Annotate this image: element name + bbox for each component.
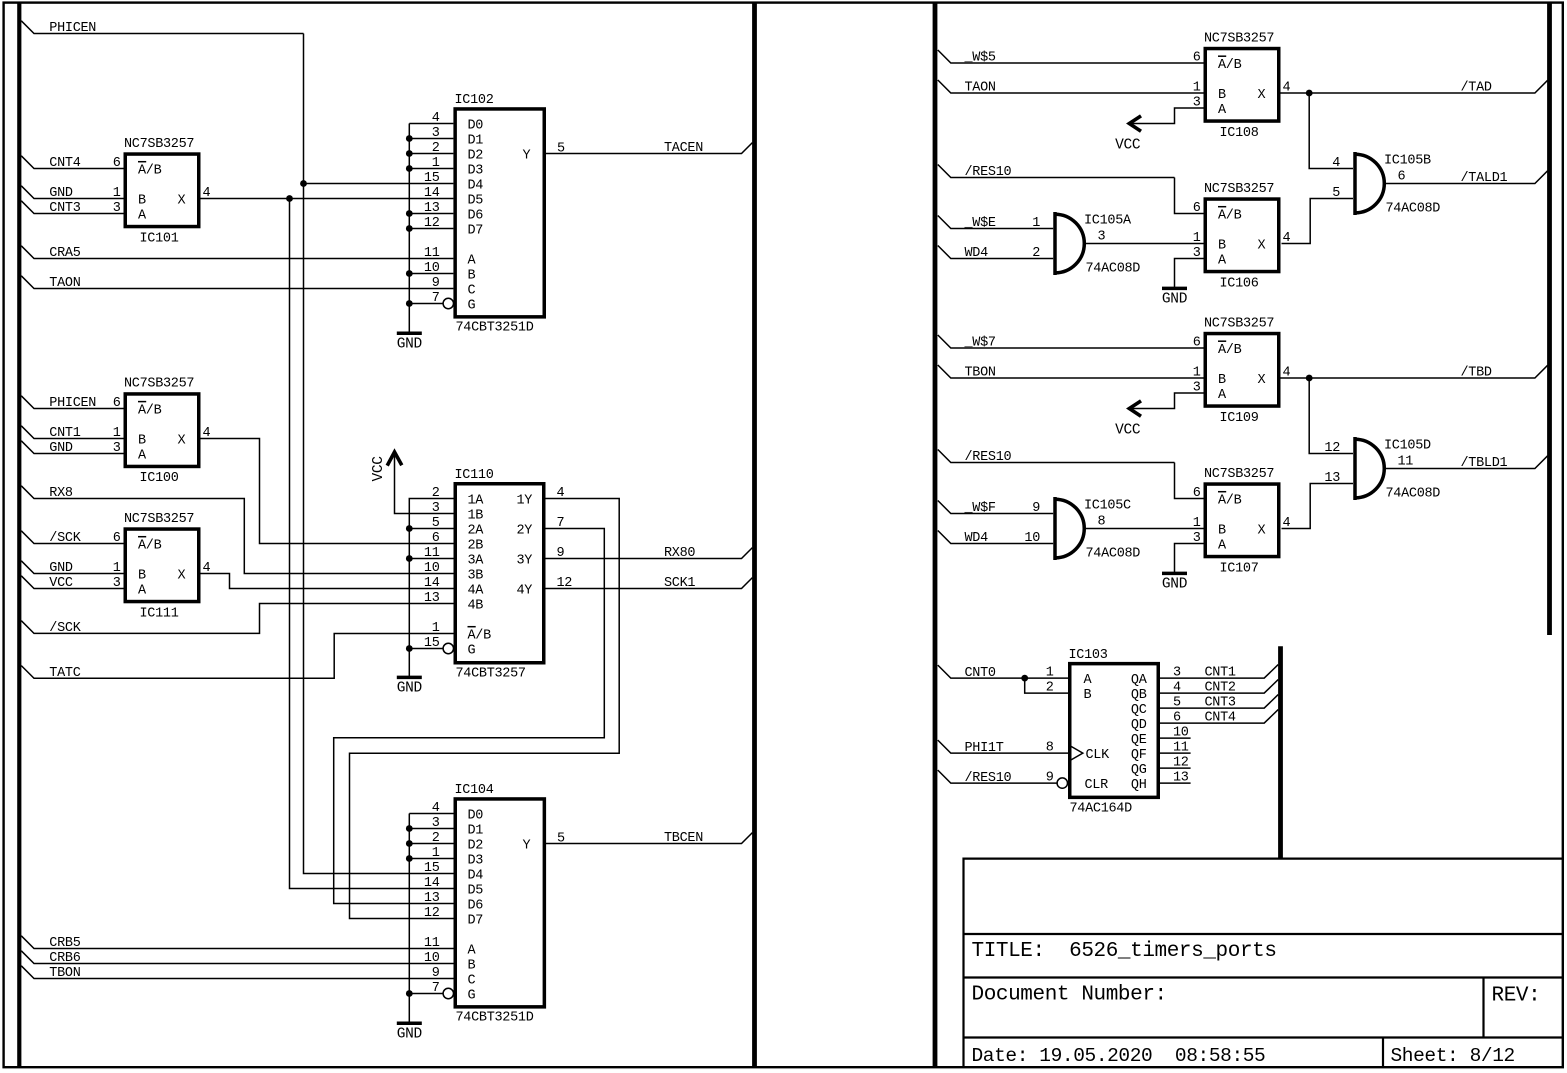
wire IC102 pin D6 — [409, 213, 453, 215]
svg-text:6: 6 — [432, 531, 440, 546]
wire net /SCK from left bus — [21, 531, 123, 544]
svg-text:D6: D6 — [468, 208, 484, 223]
IC103 clock input triangle — [1070, 746, 1083, 761]
svg-text:15: 15 — [424, 861, 440, 876]
svg-text:A: A — [138, 448, 147, 463]
stub IC103 pin 13 QH — [1160, 782, 1191, 784]
junction node PHICEN to IC102 D4 — [300, 180, 307, 187]
svg-text:X: X — [1258, 88, 1266, 103]
svg-text:1A: 1A — [468, 493, 485, 508]
svg-text:A: A — [1084, 673, 1093, 688]
wire net /RES10 from middle bus 2 — [938, 165, 1175, 178]
svg-text:/TAD: /TAD — [1461, 81, 1492, 96]
svg-text:A: A — [1218, 388, 1227, 403]
wire net CRB5 from left bus — [21, 936, 453, 949]
junction dot — [406, 270, 413, 277]
svg-text:D7: D7 — [468, 223, 484, 238]
svg-text:2B: 2B — [468, 538, 484, 553]
svg-text:74AC08D: 74AC08D — [1386, 487, 1441, 502]
svg-text:IC101: IC101 — [140, 231, 179, 246]
svg-text:IC108: IC108 — [1220, 126, 1259, 141]
wire net /TBLD1 from IC105D output to right bus — [1384, 456, 1547, 469]
svg-text:Y: Y — [523, 838, 531, 853]
middle signal bus 1 — [752, 3, 757, 1066]
wire net CNT3 from left bus — [21, 201, 123, 214]
svg-text:RX80: RX80 — [664, 546, 695, 561]
wire IC102 pin D2 — [409, 153, 453, 155]
svg-text:3A: 3A — [468, 553, 485, 568]
svg-text:3B: 3B — [468, 568, 484, 583]
wire IC111 output X to IC110 4A — [201, 574, 454, 589]
svg-text:IC109: IC109 — [1220, 411, 1259, 426]
svg-text:CNT3: CNT3 — [1205, 696, 1236, 711]
wire net CNT1 from left bus — [21, 426, 123, 439]
wire net TACEN from IC102 Y to middle bus 1 — [546, 143, 752, 154]
svg-text:4A: 4A — [468, 583, 485, 598]
svg-text:/TBD: /TBD — [1461, 366, 1492, 381]
svg-text:NC7SB3257: NC7SB3257 — [1204, 182, 1274, 197]
svg-text:VCC: VCC — [371, 456, 387, 482]
wire IC107 pin 3 to ground — [1175, 544, 1204, 574]
IC IC108 NC7SB3257 analog switch — [1193, 31, 1291, 141]
svg-text:74CBT3251D: 74CBT3251D — [456, 1011, 534, 1026]
svg-text:8: 8 — [1098, 515, 1106, 530]
svg-text:14: 14 — [424, 876, 440, 891]
svg-text:1: 1 — [432, 621, 440, 636]
IC IC103 74AC164D shift register — [1046, 648, 1189, 817]
svg-text:D4: D4 — [468, 178, 484, 193]
svg-text:Document Number:: Document Number: — [972, 984, 1167, 1007]
svg-text:TBON: TBON — [49, 966, 80, 981]
wire net TBON from middle bus 2 — [938, 365, 1204, 378]
svg-text:G: G — [468, 643, 476, 658]
wire IC102 pin B — [409, 273, 453, 275]
svg-text:IC107: IC107 — [1220, 561, 1259, 576]
wire IC102 pin D0 — [409, 123, 453, 125]
svg-text:X: X — [1258, 238, 1266, 253]
junction node /TBD — [1306, 375, 1313, 382]
svg-text:QD: QD — [1131, 718, 1147, 733]
wire VCC to IC109 pin 3 — [1131, 393, 1204, 409]
wire net PHICEN from left bus — [21, 21, 303, 34]
svg-text:15: 15 — [424, 171, 440, 186]
junction dot — [406, 840, 413, 847]
svg-text:A: A — [1218, 253, 1227, 268]
wire IC110 2Y to IC104 D6 — [334, 529, 605, 904]
svg-text:WD4: WD4 — [965, 246, 989, 261]
wire net CNT0 from middle bus 2 — [938, 665, 1068, 678]
svg-text:B: B — [1218, 238, 1226, 253]
wire net VCC from left bus — [21, 576, 123, 589]
svg-text:Y: Y — [523, 148, 531, 163]
wire net RX80 from IC110 3Y to middle bus 1 — [546, 548, 753, 559]
svg-text:A/B: A/B — [468, 628, 492, 643]
svg-text:B: B — [1218, 373, 1226, 388]
svg-text:14: 14 — [424, 576, 440, 591]
junction dot — [406, 150, 413, 157]
svg-text:IC104: IC104 — [455, 783, 494, 798]
stub IC103 pin 12 QG — [1160, 767, 1191, 769]
svg-text:C: C — [468, 283, 476, 298]
junction dot — [406, 165, 413, 172]
IC IC107 NC7SB3257 analog switch — [1193, 467, 1291, 577]
svg-text:D5: D5 — [468, 883, 484, 898]
junction dot — [406, 990, 413, 997]
power symbol VCC (arrow left) — [1115, 116, 1141, 154]
svg-text:PHICEN: PHICEN — [49, 396, 96, 411]
svg-text:_W$7: _W$7 — [964, 336, 996, 351]
middle signal bus 2 — [933, 3, 938, 1066]
wire IC100 output X to IC110 2B — [201, 439, 454, 544]
svg-text:D2: D2 — [468, 838, 484, 853]
svg-text:CLK: CLK — [1086, 748, 1111, 763]
svg-text:D0: D0 — [468, 118, 484, 133]
svg-text:A/B: A/B — [138, 163, 162, 178]
junction dot — [406, 825, 413, 832]
wire IC104 pin D2 — [409, 843, 453, 845]
svg-text:74AC164D: 74AC164D — [1070, 802, 1133, 817]
wire IC102 pin D7 — [409, 228, 453, 230]
wire net _W$7 from middle bus 2 — [938, 335, 1204, 348]
svg-text:SCK1: SCK1 — [664, 576, 695, 591]
svg-text:D5: D5 — [468, 193, 484, 208]
svg-text:D1: D1 — [468, 133, 484, 148]
svg-text:/SCK: /SCK — [49, 621, 81, 636]
stub IC103 pin 10 QE — [1160, 737, 1191, 739]
wire IC110 ground pin-line — [409, 499, 453, 678]
wire /RES10 corner to IC106 pin 6 — [1175, 178, 1204, 214]
wire vertical IC101.X down to IC104 D5 — [290, 199, 454, 889]
svg-text:X: X — [178, 568, 186, 583]
svg-text:A/B: A/B — [138, 403, 162, 418]
svg-text:10: 10 — [424, 561, 440, 576]
svg-text:REV:: REV: — [1492, 985, 1541, 1008]
wire IC106 pin 3 to ground — [1175, 259, 1204, 289]
wire net CNT4 from IC103 QD to CNT bus — [1160, 710, 1278, 724]
wire /RES10 corner to IC107 pin 6 — [1175, 463, 1204, 499]
svg-text:NC7SB3257: NC7SB3257 — [1204, 316, 1274, 331]
wire PHICEN branch to IC102 D4 — [304, 183, 454, 185]
ground symbol GND — [1162, 573, 1187, 592]
wire net CNT4 from left bus — [21, 156, 123, 169]
svg-text:NC7SB3257: NC7SB3257 — [1204, 31, 1274, 46]
svg-text:X: X — [178, 193, 186, 208]
ground symbol GND — [1162, 288, 1187, 307]
right signal bus — [1547, 3, 1552, 635]
svg-text:1Y: 1Y — [517, 493, 533, 508]
svg-text:QG: QG — [1131, 763, 1147, 778]
svg-text:A: A — [138, 208, 147, 223]
svg-text:GND: GND — [1162, 577, 1187, 593]
svg-text:PHICEN: PHICEN — [49, 21, 96, 36]
svg-text:CNT3: CNT3 — [49, 201, 80, 216]
svg-text:TBON: TBON — [965, 366, 996, 381]
svg-text:TATC: TATC — [49, 666, 80, 681]
svg-text:WD4: WD4 — [965, 531, 989, 546]
svg-text:B: B — [1218, 523, 1226, 538]
svg-text:4B: 4B — [468, 598, 484, 613]
wire IC107 output to IC105D pin 13 — [1282, 484, 1354, 529]
wire net GND from left bus — [21, 441, 123, 454]
svg-text:GND: GND — [397, 336, 422, 352]
svg-text:GND: GND — [397, 681, 422, 697]
wire IC101 output X to IC102 D5 and down — [201, 198, 454, 200]
wire net CNT3 from IC103 QC to CNT bus — [1160, 695, 1278, 709]
svg-text:B: B — [468, 958, 476, 973]
svg-text:74AC08D: 74AC08D — [1086, 547, 1141, 562]
CNT signal bus — [1278, 646, 1283, 858]
wire IC110 1Y to IC104 D7 — [350, 499, 620, 919]
IC IC100 NC7SB3257 analog switch — [113, 377, 211, 487]
svg-text:A: A — [138, 583, 147, 598]
svg-text:QB: QB — [1131, 688, 1147, 703]
svg-text:GND: GND — [49, 441, 73, 456]
wire net WD4 from middle bus 2 — [938, 246, 1053, 259]
left signal bus — [17, 3, 21, 1066]
svg-text:D7: D7 — [468, 913, 484, 928]
IC IC104 74CBT3251D multiplexer — [424, 783, 565, 1025]
svg-text:_W$F: _W$F — [964, 501, 996, 516]
svg-text:1: 1 — [1193, 516, 1201, 531]
wire IC102 pin D3 — [409, 168, 453, 170]
svg-text:CNT1: CNT1 — [1205, 666, 1236, 681]
svg-text:12: 12 — [1324, 441, 1340, 456]
wire net CNT1 from IC103 QA to CNT bus — [1160, 665, 1278, 679]
wire net TBON from left bus — [21, 966, 453, 979]
svg-text:13: 13 — [424, 591, 440, 606]
svg-text:B: B — [138, 568, 146, 583]
junction dot — [406, 210, 413, 217]
power symbol VCC (arrow left) — [1115, 401, 1141, 439]
svg-text:Date: 19.05.2020 08:58:55: Date: 19.05.2020 08:58:55 — [972, 1045, 1266, 1067]
wire IC106 output to IC105B pin 5 — [1282, 199, 1354, 244]
svg-text:6: 6 — [1193, 201, 1201, 216]
svg-text:NC7SB3257: NC7SB3257 — [124, 377, 194, 392]
IC IC111 NC7SB3257 analog switch — [113, 512, 211, 622]
wire net /SCK from left bus to IC110 4B — [21, 604, 453, 634]
svg-text:3: 3 — [1098, 230, 1106, 245]
svg-text:X: X — [178, 433, 186, 448]
svg-text:C: C — [468, 973, 476, 988]
IC IC101 NC7SB3257 analog switch — [113, 137, 211, 247]
wire PHICEN vertical down to IC104 D4 — [304, 34, 454, 874]
svg-text:NC7SB3257: NC7SB3257 — [124, 512, 194, 527]
wire IC104 pin D1 — [409, 828, 453, 830]
wire IC104 pin G with bubble — [409, 993, 443, 995]
junction node CNT0 — [1021, 675, 1028, 682]
svg-text:IC105A: IC105A — [1084, 214, 1132, 229]
gate IC105C 74AC08D AND — [1024, 497, 1140, 562]
wire IC104 ground pin-line — [408, 814, 410, 1024]
svg-text:74CBT3257: 74CBT3257 — [456, 667, 526, 682]
svg-text:GND: GND — [397, 1026, 422, 1042]
junction dot — [406, 645, 413, 652]
svg-text:IC103: IC103 — [1069, 648, 1108, 663]
ground symbol GND — [397, 333, 422, 352]
wire IC105C output to IC107 pin 1 — [1084, 528, 1203, 530]
wire IC102 ground pin-line — [408, 124, 410, 334]
svg-text:PHI1T: PHI1T — [965, 741, 1004, 756]
svg-text:_W$5: _W$5 — [964, 51, 996, 66]
IC IC109 NC7SB3257 analog switch — [1193, 316, 1291, 426]
junction dot — [406, 855, 413, 862]
svg-text:CRB5: CRB5 — [49, 936, 80, 951]
svg-text:D6: D6 — [468, 898, 484, 913]
svg-text:B: B — [138, 433, 146, 448]
svg-text:/RES10: /RES10 — [965, 165, 1012, 180]
svg-text:13: 13 — [424, 891, 440, 906]
svg-text:GND: GND — [1162, 292, 1187, 308]
svg-text:IC105C: IC105C — [1084, 499, 1131, 514]
wire IC104 pin D3 — [409, 858, 453, 860]
svg-text:IC105D: IC105D — [1384, 439, 1431, 454]
svg-text:VCC: VCC — [1115, 138, 1141, 154]
svg-text:D0: D0 — [468, 808, 484, 823]
svg-text:NC7SB3257: NC7SB3257 — [124, 137, 194, 152]
junction node /TAD — [1306, 90, 1313, 97]
svg-text:A/B: A/B — [1218, 208, 1242, 223]
svg-text:A/B: A/B — [1218, 493, 1242, 508]
gate IC105B 74AC08D AND — [1332, 152, 1440, 217]
svg-text:TACEN: TACEN — [664, 141, 703, 156]
svg-text:1: 1 — [1193, 231, 1201, 246]
svg-text:B: B — [1218, 88, 1226, 103]
junction dot — [406, 135, 413, 142]
IC IC102 74CBT3251D multiplexer — [424, 93, 565, 335]
wire net GND from left bus — [21, 186, 123, 199]
svg-text:IC105B: IC105B — [1384, 154, 1431, 169]
svg-text:B: B — [1084, 688, 1092, 703]
title block frame — [964, 859, 1563, 1067]
svg-text:/RES10: /RES10 — [965, 450, 1012, 465]
svg-text:/TALD1: /TALD1 — [1461, 171, 1508, 186]
svg-text:A: A — [468, 253, 477, 268]
IC IC106 NC7SB3257 analog switch — [1193, 182, 1291, 291]
svg-text:CNT2: CNT2 — [1205, 681, 1236, 696]
junction dot — [406, 555, 413, 562]
svg-text:B: B — [468, 268, 476, 283]
wire net RX8 from left bus to IC110 3B — [21, 486, 453, 574]
svg-text:IC106: IC106 — [1220, 276, 1259, 291]
svg-text:D2: D2 — [468, 148, 484, 163]
wire CNT0 branch to IC103 pin 2 — [1025, 678, 1068, 693]
svg-text:4Y: 4Y — [517, 583, 533, 598]
wire net _W$E from middle bus 2 — [938, 216, 1053, 229]
wire IC102 pin D1 — [409, 138, 453, 140]
svg-text:D3: D3 — [468, 853, 484, 868]
svg-text:CRB6: CRB6 — [49, 951, 80, 966]
svg-text:12: 12 — [424, 906, 440, 921]
svg-text:VCC: VCC — [1115, 423, 1141, 439]
svg-text:74AC08D: 74AC08D — [1086, 262, 1141, 277]
wire net WD4 from middle bus 2 — [938, 531, 1053, 544]
junction dot — [406, 300, 413, 307]
svg-text:11: 11 — [1398, 455, 1414, 470]
svg-text:TAON: TAON — [49, 276, 80, 291]
svg-text:GND: GND — [49, 186, 73, 201]
junction dot — [406, 225, 413, 232]
svg-text:QA: QA — [1131, 673, 1148, 688]
svg-text:NC7SB3257: NC7SB3257 — [1204, 467, 1274, 482]
wire net CRB6 from left bus — [21, 951, 453, 964]
svg-text:74CBT3251D: 74CBT3251D — [456, 321, 534, 336]
svg-text:GND: GND — [49, 561, 73, 576]
wire net PHI1T from middle bus 2 — [938, 740, 1068, 753]
svg-text:A: A — [1218, 538, 1227, 553]
svg-text:2A: 2A — [468, 523, 485, 538]
svg-text:QH: QH — [1131, 778, 1147, 793]
svg-text:D3: D3 — [468, 163, 484, 178]
wire VCC to IC110 1B — [395, 452, 454, 514]
svg-text:TBCEN: TBCEN — [664, 831, 703, 846]
svg-text:A/B: A/B — [1218, 343, 1242, 358]
svg-text:_W$E: _W$E — [964, 216, 996, 231]
svg-text:QC: QC — [1131, 703, 1147, 718]
svg-text:X: X — [1258, 523, 1266, 538]
svg-text:IC102: IC102 — [455, 93, 494, 108]
svg-text:IC100: IC100 — [140, 471, 179, 486]
wire net /RES10 to IC103 CLR with bubble — [938, 770, 1057, 783]
svg-text:74AC08D: 74AC08D — [1386, 202, 1441, 217]
svg-text:6: 6 — [1398, 170, 1406, 185]
svg-text:CLR: CLR — [1085, 778, 1109, 793]
svg-text:CNT0: CNT0 — [965, 666, 996, 681]
gate IC105D 74AC08D AND — [1324, 437, 1440, 502]
svg-text:QE: QE — [1131, 733, 1147, 748]
svg-text:TITLE: 6526_timers_ports: TITLE: 6526_timers_ports — [972, 940, 1277, 963]
wire net /TBD from IC109 X to right bus — [1281, 365, 1548, 378]
wire net /TAD from IC108 X to right bus — [1281, 80, 1548, 93]
svg-text:IC110: IC110 — [455, 468, 494, 483]
wire IC105A output to IC106 pin 1 — [1084, 243, 1203, 245]
junction dot — [406, 525, 413, 532]
svg-text:TAON: TAON — [965, 81, 996, 96]
svg-text:4: 4 — [1332, 156, 1340, 171]
stub IC103 pin 11 QF — [1160, 752, 1191, 754]
junction node IC101.X branch — [286, 195, 293, 202]
svg-text:CNT1: CNT1 — [49, 426, 80, 441]
ground symbol GND — [397, 677, 422, 696]
IC IC110 74CBT3257 multiplexer — [424, 468, 572, 682]
svg-text:A/B: A/B — [138, 538, 162, 553]
svg-text:/SCK: /SCK — [49, 531, 81, 546]
wire /TAD branch to IC105B pin 4 — [1309, 93, 1353, 169]
wire IC110 pin G with bubble — [409, 648, 443, 650]
svg-text:IC111: IC111 — [140, 606, 179, 621]
wire VCC to IC108 pin 3 — [1131, 108, 1204, 124]
svg-text:G: G — [468, 298, 476, 313]
svg-text:1B: 1B — [468, 508, 484, 523]
wire net TATC from left bus to IC110 A/B — [21, 634, 453, 679]
svg-text:G: G — [468, 988, 476, 1003]
wire net PHICEN from left bus — [21, 396, 123, 409]
gate IC105A 74AC08D AND — [1032, 212, 1140, 277]
svg-text:VCC: VCC — [49, 576, 73, 591]
wire net /RES10 from middle bus 2 — [938, 450, 1175, 463]
svg-text:A/B: A/B — [1218, 58, 1242, 73]
wire net SCK1 from IC110 4Y to middle bus 1 — [546, 578, 753, 589]
wire /TBD branch to IC105D pin 12 — [1309, 378, 1353, 454]
svg-text:CRA5: CRA5 — [49, 246, 80, 261]
svg-text:14: 14 — [424, 186, 440, 201]
wire IC110 pin 2A — [409, 528, 453, 530]
wire net GND from left bus — [21, 561, 123, 574]
svg-text:Sheet: 8/12: Sheet: 8/12 — [1391, 1045, 1515, 1067]
wire net /TALD1 from IC105B output to right bus — [1384, 171, 1547, 184]
svg-text:A: A — [468, 943, 477, 958]
svg-text:X: X — [1258, 373, 1266, 388]
wire net TBCEN from IC104 Y to middle bus 1 — [546, 833, 752, 844]
